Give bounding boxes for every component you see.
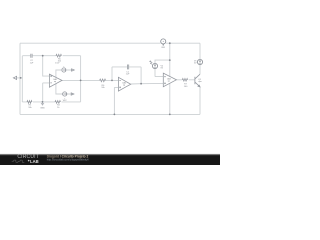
svg-text:10k: 10k xyxy=(101,87,105,89)
svg-text:5V: 5V xyxy=(161,68,164,70)
svg-text:IM1: IM1 xyxy=(162,47,166,49)
svg-text:npn: npn xyxy=(198,81,202,83)
svg-text:op: op xyxy=(123,85,125,87)
svg-text:1uF: 1uF xyxy=(126,74,130,76)
svg-text:+: + xyxy=(63,66,65,68)
svg-text:http://circuitlab.com/c/bgspsl: http://circuitlab.com/c/bgspslakbskyfi xyxy=(47,158,89,162)
svg-text:op: op xyxy=(168,80,170,82)
svg-text:100: 100 xyxy=(184,86,188,88)
svg-text:1uF: 1uF xyxy=(30,62,34,64)
svg-text:GND: GND xyxy=(40,107,45,109)
svg-text:5V: 5V xyxy=(194,63,197,65)
svg-text:op: op xyxy=(54,81,56,83)
svg-text:1mV: 1mV xyxy=(55,62,60,64)
svg-text:LAB: LAB xyxy=(30,159,39,164)
svg-text:10k: 10k xyxy=(28,107,32,109)
svg-text:1k: 1k xyxy=(57,107,60,109)
